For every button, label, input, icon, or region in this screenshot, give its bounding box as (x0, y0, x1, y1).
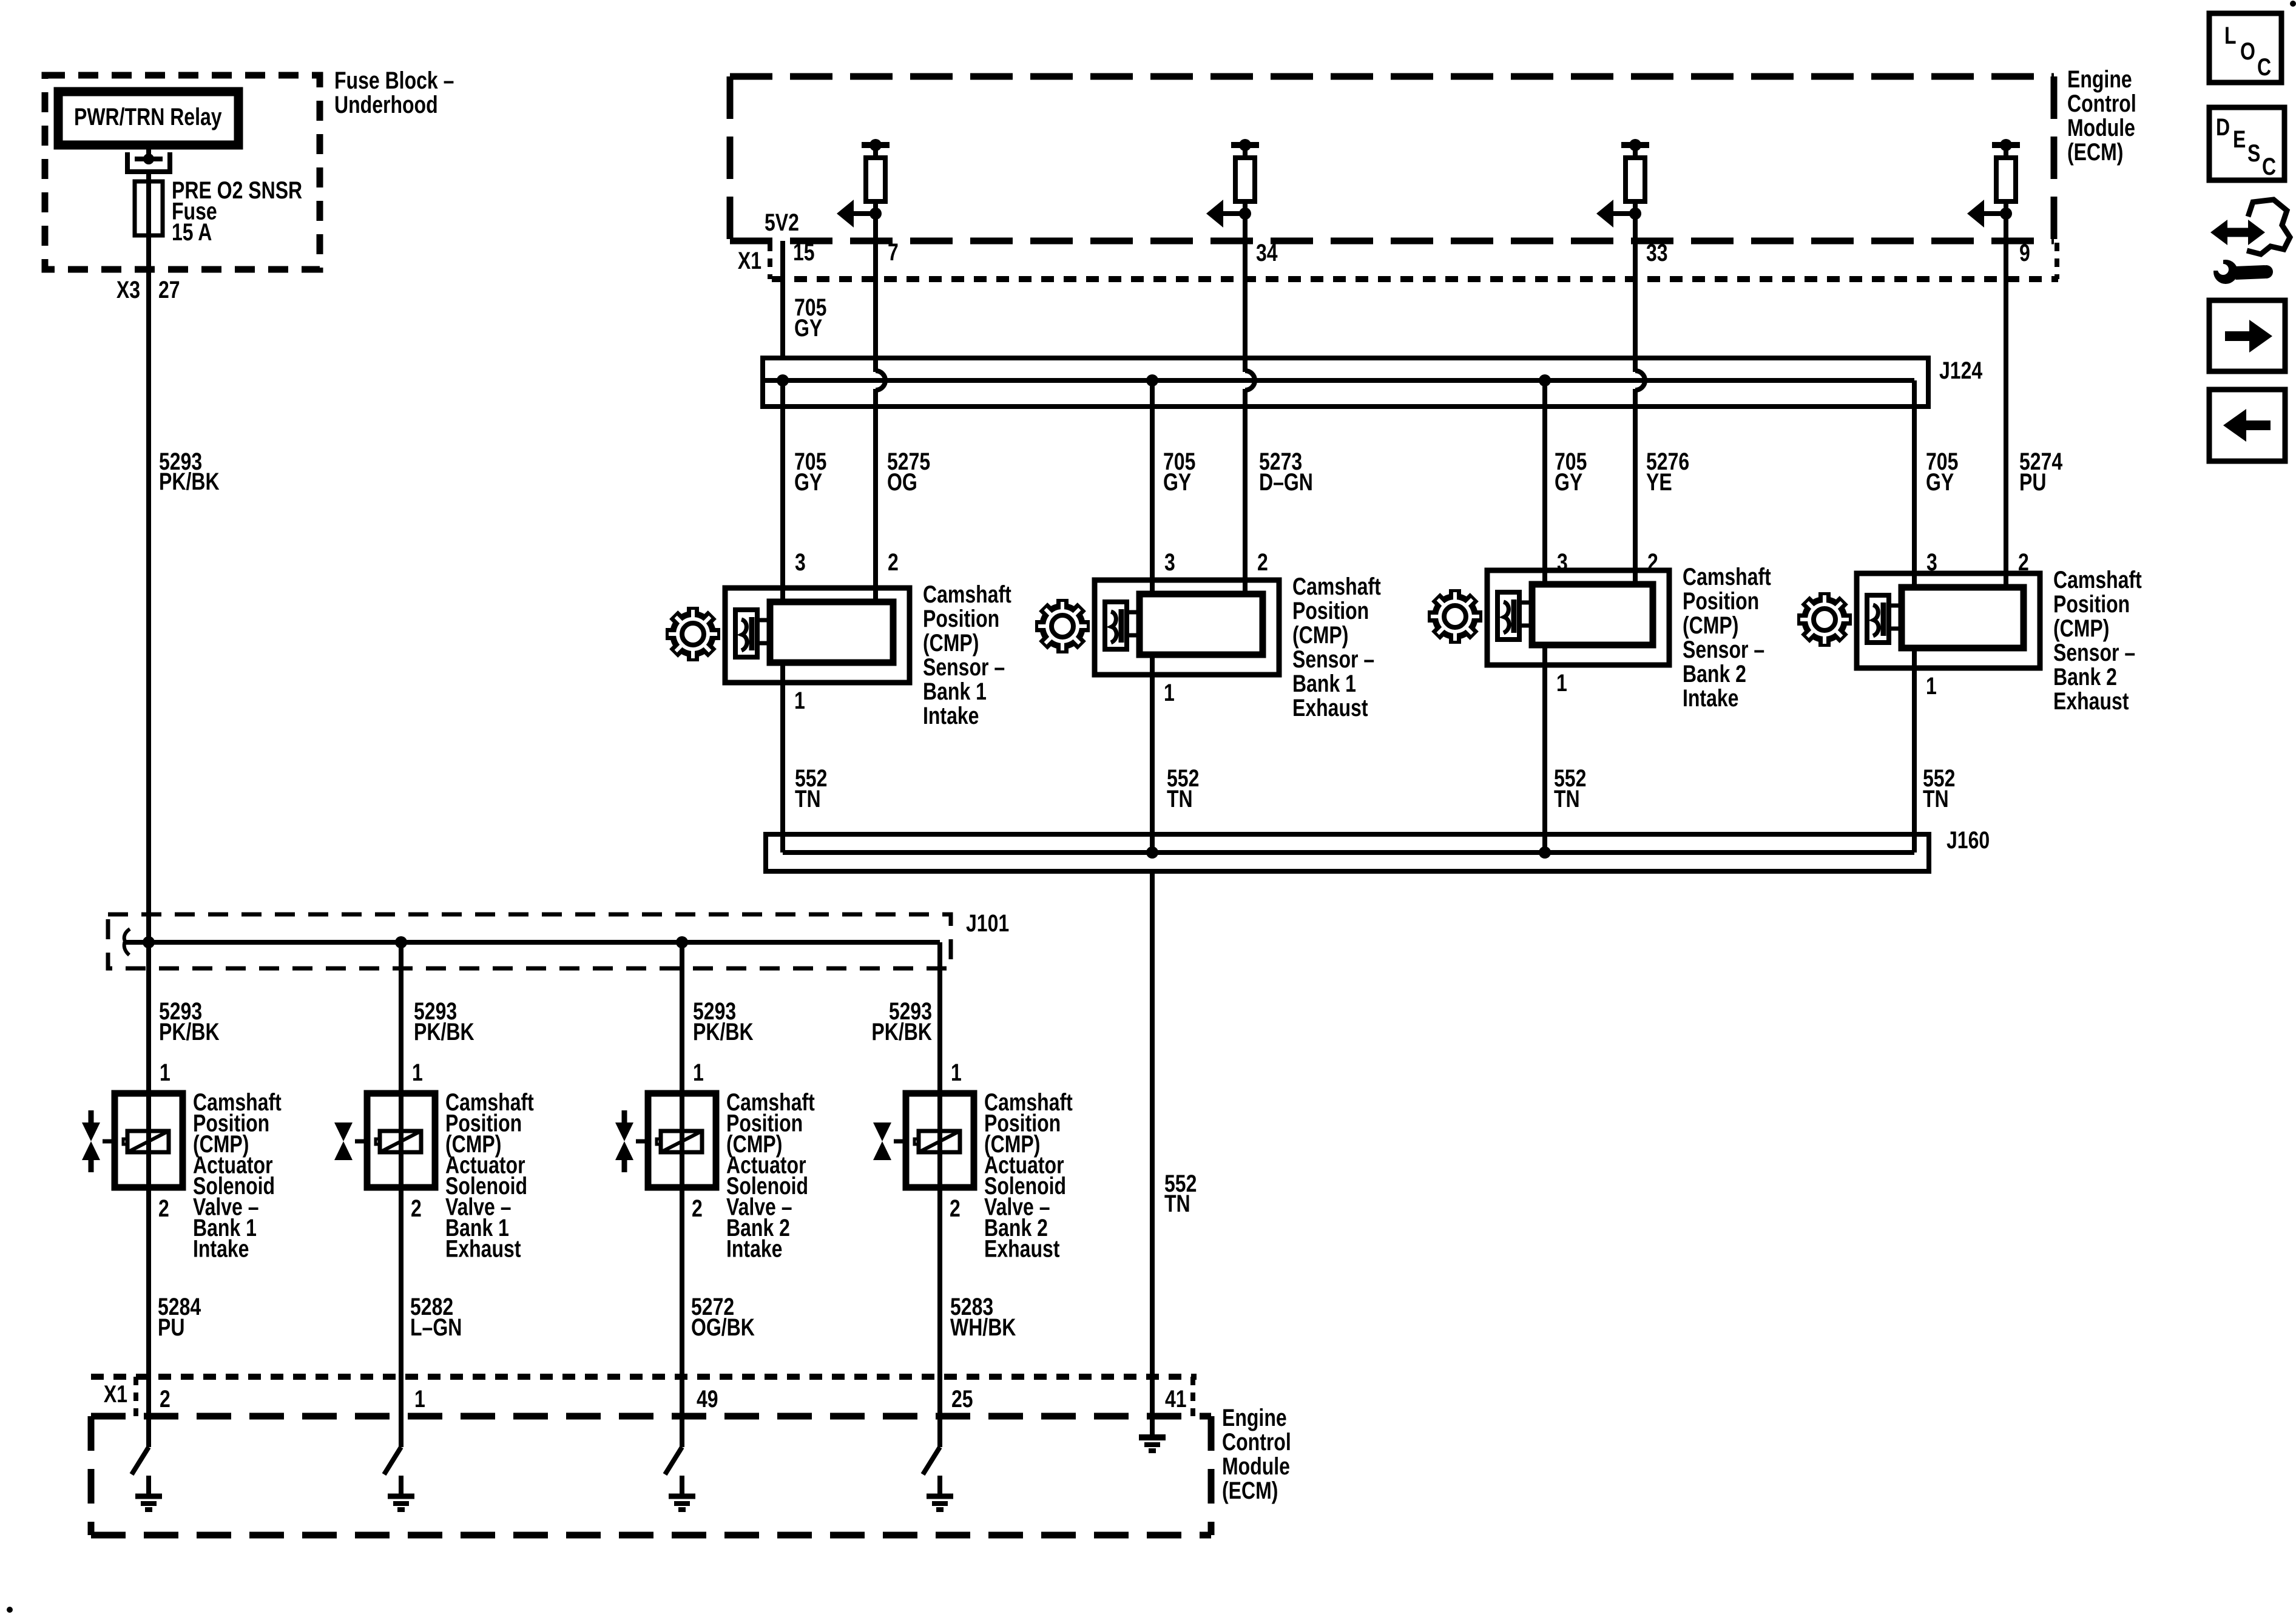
X1 separator bottom left (133, 1377, 138, 1416)
Engine Control Module (ECM) dashed enclosure top (730, 76, 2054, 241)
ECM driver switch pin1 (384, 1416, 414, 1510)
svg-text:Sensor –: Sensor – (2053, 639, 2135, 666)
wire pin 34 (5273) down to J124 (1243, 214, 1248, 372)
svg-text:J124: J124 (1939, 357, 1982, 384)
svg-text:OG/BK: OG/BK (691, 1314, 755, 1341)
wire through actuator 1-Intake (146, 1093, 151, 1187)
wire pin1 out of sensor B3 (1542, 645, 1547, 665)
solenoid coil 1-Exhaust (376, 1131, 421, 1152)
svg-text:GY: GY (1926, 468, 1954, 496)
Fuse Block - Underhood dashed enclosure (45, 75, 320, 269)
svg-text:2: 2 (2018, 549, 2029, 576)
resistor R4 (ECM internal pull-up to 5V) (1992, 139, 2020, 214)
svg-text:Module: Module (1222, 1453, 1290, 1480)
svg-text:TN: TN (1167, 785, 1193, 812)
svg-text:L: L (2224, 22, 2237, 49)
CMP sensor B2 outer box (1095, 580, 1279, 675)
svg-text:Sensor –: Sensor – (923, 653, 1005, 681)
svg-text:TN: TN (1923, 785, 1949, 812)
CMP sensor B1 body (770, 602, 893, 663)
splice J101 bus wire (124, 940, 940, 945)
junction dot J101 act2 (395, 936, 407, 948)
svg-text:TN: TN (795, 785, 821, 812)
svg-text:PU: PU (2019, 468, 2046, 496)
svg-text:(CMP): (CMP) (2053, 615, 2109, 642)
CMP sensor B2 body (1140, 594, 1263, 655)
svg-text:Exhaust: Exhaust (1292, 694, 1368, 721)
ground pin 41 (1139, 1437, 1166, 1451)
svg-text:C: C (2262, 153, 2276, 180)
svg-text:Bank 2: Bank 2 (1683, 660, 1746, 687)
signal arrow at R2 (1206, 200, 1251, 228)
svg-text:GY: GY (1555, 468, 1582, 496)
CMP sensor B1 gear icon (666, 607, 720, 661)
svg-text:(CMP): (CMP) (1683, 612, 1738, 639)
wire 705 GY J124 to sensor4 pin3 (1912, 407, 1917, 537)
CMP sensor B3 gear icon (1428, 589, 1482, 644)
wire 5282 L-GN actuator2 to ECM (399, 1187, 403, 1416)
CMP sensor B4 connector element (1867, 595, 1902, 643)
svg-text:49: 49 (697, 1385, 718, 1413)
wire 552 TN J160 to ECM pin 41 (1150, 871, 1155, 1435)
wire pin2 into sensor B1 (873, 552, 878, 605)
svg-text:Control: Control (1222, 1428, 1291, 1456)
wire pin3 into sensor B1 (780, 552, 785, 605)
svg-text:3: 3 (1164, 549, 1175, 576)
wire 552 TN sensor3 to J160 (1542, 664, 1547, 852)
svg-text:1: 1 (1556, 669, 1567, 697)
svg-text:Camshaft: Camshaft (1683, 563, 1771, 590)
X1 separator bottom right (1190, 1377, 1195, 1416)
svg-text:Sensor –: Sensor – (1292, 646, 1374, 673)
svg-text:41: 41 (1165, 1385, 1187, 1413)
CMP sensor B2 connector element (1105, 602, 1140, 649)
CMP actuator solenoid valve 2-Exhaust valve symbol (873, 1122, 906, 1160)
icon DESC (2209, 107, 2284, 180)
wire pin1 out of sensor B1 (780, 663, 785, 683)
svg-text:X1: X1 (738, 247, 761, 274)
ECM driver switch pin2 (132, 1416, 162, 1510)
wire fuse to X3 connector (146, 235, 151, 269)
svg-text:Position: Position (2053, 590, 2130, 618)
svg-text:2: 2 (160, 1385, 171, 1413)
svg-text:Bank 1: Bank 1 (923, 678, 987, 705)
svg-text:J101: J101 (966, 910, 1009, 937)
svg-text:S: S (2247, 140, 2260, 167)
svg-text:2: 2 (158, 1195, 169, 1222)
signal arrow at R1 (837, 200, 882, 228)
wire pin 33 (5276) down to J124 (1633, 214, 1638, 372)
wire 5283 WH/BK actuator4 to ECM (937, 1187, 942, 1416)
svg-text:(ECM): (ECM) (1222, 1477, 1278, 1504)
wire 552 TN sensor2 to J160 (1150, 674, 1155, 852)
svg-text:Position: Position (1292, 597, 1369, 624)
CMP sensor B4 body (1902, 587, 2024, 648)
wire 5275 OG J124 to sensor1 pin2 (873, 389, 878, 552)
CMP sensor B1 outer box (725, 588, 910, 683)
svg-text:3: 3 (795, 549, 806, 576)
splice J101 dashed box (108, 914, 951, 968)
wire 5293 to actuator3 (680, 942, 684, 1093)
svg-text:2: 2 (692, 1195, 703, 1222)
CMP actuator solenoid valve 1-Intake box (115, 1093, 183, 1187)
svg-text:Intake: Intake (1683, 684, 1738, 712)
wire through actuator 2-Exhaust (937, 1093, 942, 1187)
junction dot J101 act1 (143, 936, 155, 948)
CMP sensor B3 connector element (1497, 592, 1532, 640)
svg-text:1: 1 (693, 1059, 704, 1086)
svg-text:1: 1 (414, 1385, 425, 1413)
svg-text:Exhaust: Exhaust (445, 1235, 521, 1262)
icon arrow left (2209, 390, 2285, 461)
svg-text:J160: J160 (1947, 826, 1990, 854)
svg-text:Camshaft: Camshaft (923, 581, 1011, 608)
svg-text:Camshaft: Camshaft (1292, 573, 1381, 600)
svg-text:E: E (2233, 126, 2246, 153)
svg-text:Intake: Intake (726, 1235, 782, 1262)
wire 5293 to actuator4 (937, 942, 942, 1093)
CMP sensor B3 outer box (1487, 570, 1669, 665)
CMP actuator solenoid valve 2-Intake box (648, 1093, 716, 1187)
CMP sensor B4 gear icon (1797, 592, 1852, 647)
svg-text:2: 2 (411, 1195, 422, 1222)
svg-text:X1: X1 (104, 1380, 127, 1408)
wire through actuator 2-Intake (680, 1093, 684, 1187)
signal arrow at R3 (1596, 200, 1641, 228)
svg-text:1: 1 (412, 1059, 423, 1086)
svg-text:PU: PU (158, 1314, 184, 1341)
junction dot J101 act3 (676, 936, 688, 948)
CMP sensor B4 outer box (1857, 573, 2040, 668)
wire 705 GY J124 to sensor3 pin3 (1542, 380, 1547, 534)
wire terminal to fuse (146, 172, 151, 181)
svg-text:Control: Control (2067, 90, 2136, 117)
svg-text:L–GN: L–GN (410, 1314, 462, 1341)
svg-text:33: 33 (1646, 239, 1668, 266)
svg-text:9: 9 (2019, 239, 2030, 266)
svg-text:2: 2 (1257, 549, 1268, 576)
svg-text:PWR/TRN Relay: PWR/TRN Relay (74, 103, 222, 130)
signal arrow at R4 (1967, 200, 2012, 228)
wire circuit 5293 fuse to J101 (146, 269, 151, 942)
svg-text:Sensor –: Sensor – (1683, 636, 1764, 663)
wire pin2 into sensor B3 (1633, 534, 1638, 587)
wire 5293 to actuator2 (399, 942, 403, 1093)
wire pin 7 (5275) down to J124 (873, 214, 878, 372)
svg-text:2: 2 (950, 1195, 961, 1222)
CMP actuator solenoid valve 1-Exhaust box (367, 1093, 435, 1187)
wire 5272 OG/BK actuator3 to ECM (680, 1187, 684, 1416)
fuse holder terminal clip (127, 152, 170, 174)
svg-text:2: 2 (1647, 549, 1658, 576)
wire pin2 into sensor B2 (1243, 544, 1248, 597)
svg-text:34: 34 (1256, 239, 1278, 266)
wire hop 5275 over J124 (876, 371, 885, 390)
resistor R1 (ECM internal pull-up to 5V) (862, 139, 890, 214)
junction dot J124 sensor2 (1146, 374, 1158, 387)
svg-text:(CMP): (CMP) (1292, 621, 1348, 649)
svg-text:PK/BK: PK/BK (159, 468, 220, 495)
svg-text:1: 1 (951, 1059, 962, 1086)
svg-text:Fuse Block –: Fuse Block – (334, 67, 454, 94)
page mark bottom left (7, 1607, 13, 1613)
wire 552 TN sensor4 to J160 (1912, 667, 1917, 852)
svg-text:(ECM): (ECM) (2067, 138, 2123, 166)
svg-text:WH/BK: WH/BK (950, 1314, 1016, 1341)
wire 5293 to actuator1 (146, 942, 151, 1093)
wire pin1 out of sensor B2 (1150, 655, 1155, 675)
svg-text:D: D (2216, 113, 2230, 141)
svg-text:Exhaust: Exhaust (984, 1235, 1059, 1262)
X1 separator right (2055, 243, 2059, 279)
svg-text:(CMP): (CMP) (923, 629, 979, 657)
svg-text:Underhood: Underhood (334, 91, 438, 118)
ECM driver switch pin25 (923, 1416, 953, 1510)
svg-text:2: 2 (888, 549, 899, 576)
icon arrow right (2209, 300, 2285, 371)
svg-text:O: O (2240, 38, 2255, 65)
svg-text:X3: X3 (116, 276, 140, 303)
svg-text:15 A: 15 A (172, 218, 212, 246)
svg-text:D–GN: D–GN (1259, 468, 1313, 496)
icon wiring repair (wrench) (2207, 200, 2290, 284)
svg-text:GY: GY (794, 314, 822, 342)
CMP actuator solenoid valve 2-Exhaust box (906, 1093, 974, 1187)
wire 5273 D-GN J124 to sensor2 pin2 (1243, 389, 1248, 544)
J101 left hook (124, 929, 130, 955)
svg-text:PK/BK: PK/BK (414, 1018, 474, 1045)
svg-text:Position: Position (1683, 587, 1759, 615)
svg-text:1: 1 (1926, 672, 1937, 700)
CMP actuator solenoid valve 1-Intake valve symbol (82, 1110, 115, 1172)
svg-text:Bank 1: Bank 1 (1292, 670, 1356, 697)
fuse PRE O2 SNSR 15 A (135, 181, 163, 235)
wire through actuator 1-Exhaust (399, 1093, 403, 1187)
connector X1 row bottom (dotted) (91, 1374, 1197, 1380)
svg-text:GY: GY (794, 468, 822, 496)
svg-text:PK/BK: PK/BK (693, 1018, 754, 1045)
svg-text:YE: YE (1646, 468, 1672, 496)
svg-text:TN: TN (1554, 785, 1580, 812)
svg-text:1: 1 (1164, 679, 1175, 706)
solenoid coil 2-Intake (657, 1131, 702, 1152)
page mark top right (2290, 1, 2296, 7)
svg-text:3: 3 (1926, 549, 1937, 576)
wire 705 GY J124 to sensor2 pin3 (1150, 380, 1155, 544)
X1 separator (768, 243, 772, 279)
junction dot J160 sensor2 (1146, 846, 1158, 859)
wire pin1 out of sensor B4 (1912, 648, 1917, 668)
svg-text:Intake: Intake (193, 1235, 249, 1262)
wire 5284 PU actuator1 to ECM (146, 1187, 151, 1416)
wire relay to fuse terminal (146, 145, 151, 159)
svg-text:GY: GY (1163, 468, 1191, 496)
svg-text:PK/BK: PK/BK (159, 1018, 220, 1045)
svg-text:3: 3 (1557, 549, 1568, 576)
CMP sensor B3 body (1532, 584, 1653, 645)
svg-text:Engine: Engine (1222, 1404, 1287, 1431)
CMP actuator solenoid valve 1-Exhaust valve symbol (334, 1122, 367, 1160)
svg-text:Camshaft: Camshaft (2053, 566, 2142, 593)
svg-text:Position: Position (923, 605, 999, 632)
svg-text:Module: Module (2067, 114, 2135, 141)
svg-text:Intake: Intake (923, 702, 979, 729)
svg-text:27: 27 (158, 276, 180, 303)
resistor R3 (ECM internal pull-up to 5V) (1621, 139, 1649, 214)
wire hop 5273 over J124 (1245, 371, 1255, 390)
svg-text:C: C (2257, 53, 2271, 81)
junction dot J124 pin15/sensor1 (777, 374, 789, 387)
CMP sensor B1 connector element (735, 610, 770, 657)
wire pin3 into sensor B3 (1542, 534, 1547, 587)
resistor R2 (ECM internal pull-up to 5V) (1231, 139, 1259, 214)
svg-text:PK/BK: PK/BK (871, 1018, 932, 1045)
svg-text:TN: TN (1164, 1190, 1190, 1217)
wire pin 9 (5274) down to sensor4 (2004, 214, 2008, 551)
ECM driver switch pin49 (665, 1416, 695, 1510)
svg-text:5V2: 5V2 (765, 209, 799, 236)
svg-text:1: 1 (794, 687, 805, 714)
junction dot J124 sensor3 (1539, 374, 1551, 387)
connector X1 row top (dotted) (772, 276, 2058, 282)
splice pack J124 (763, 358, 1928, 407)
icon LOC (2209, 13, 2281, 83)
wire pin 15 (705 GY) down to J124 (780, 241, 785, 358)
svg-text:7: 7 (888, 238, 899, 266)
wire pin3 into sensor B2 (1150, 544, 1155, 597)
junction dot J160 sensor3 (1539, 846, 1551, 859)
CMP actuator solenoid valve 2-Intake valve symbol (615, 1110, 648, 1172)
svg-text:1: 1 (160, 1059, 171, 1086)
svg-text:Exhaust: Exhaust (2053, 687, 2129, 715)
wire pin2 into sensor B4 (2004, 537, 2008, 590)
Engine Control Module (ECM) dashed enclosure bottom (91, 1416, 1211, 1535)
wire 705 GY J124 to sensor1 pin3 (780, 380, 785, 552)
relay PWR/TRN Relay (58, 92, 238, 145)
solenoid coil 2-Exhaust (914, 1131, 960, 1152)
wire 5276 YE J124 to sensor3 pin2 (1633, 389, 1638, 534)
CMP sensor B2 gear icon (1035, 599, 1090, 653)
svg-text:Engine: Engine (2067, 66, 2132, 93)
svg-text:OG: OG (887, 468, 917, 496)
wire hop 5276 over J124 (1635, 371, 1645, 390)
wire pin3 into sensor B4 (1912, 537, 1917, 590)
splice pack J160 (766, 834, 1929, 871)
svg-text:Bank 2: Bank 2 (2053, 663, 2117, 690)
solenoid coil 1-Intake (123, 1131, 169, 1152)
svg-text:15: 15 (793, 238, 815, 266)
svg-text:25: 25 (951, 1385, 973, 1413)
wire 552 TN sensor1 to J160 (780, 683, 785, 852)
